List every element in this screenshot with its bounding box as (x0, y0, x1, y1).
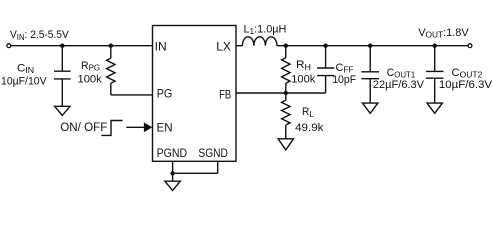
svg-text:CFF​: CFF​ (336, 62, 354, 75)
ground below RL (278, 139, 293, 150)
svg-text:100k: 100k (78, 74, 103, 86)
svg-text:10µF/6.3V: 10µF/6.3V (439, 79, 493, 91)
output terminal VOUT (468, 44, 472, 48)
capacitor COUT2 (426, 46, 444, 103)
wire FB pin to RH/RL node (236, 92, 286, 94)
svg-text:SGND: SGND (198, 147, 227, 160)
ground below COUT1 (363, 103, 378, 113)
svg-text:CIN​: CIN​ (17, 62, 34, 75)
svg-text:PGND: PGND (157, 147, 188, 160)
node junction at COUT2 (433, 44, 437, 48)
node junction at RPG (109, 44, 113, 48)
ground below IC (165, 181, 180, 190)
svg-text:L1​:1.0µH: L1​:1.0µH (244, 23, 287, 36)
ground below CIN (55, 106, 70, 115)
wire RPG to PG pin (111, 94, 153, 96)
svg-text:100k: 100k (291, 73, 316, 85)
svg-text:10pF: 10pF (332, 74, 356, 86)
capacitor CIN (54, 46, 71, 107)
svg-text:IN: IN (155, 40, 167, 54)
inductor L1 (242, 37, 277, 46)
wire LX pin to inductor (236, 45, 242, 47)
svg-text:EN: EN (157, 121, 173, 134)
node junction at CIN (60, 44, 64, 48)
wire PGND to ground (172, 161, 174, 173)
svg-text:COUT2​: COUT2​ (452, 67, 483, 80)
svg-text:FB: FB (219, 88, 231, 101)
svg-text:PG: PG (157, 88, 173, 101)
svg-text:49.9k: 49.9k (295, 122, 324, 134)
node junction FB (284, 91, 288, 95)
wire SGND to ground (173, 161, 218, 173)
svg-text:RH​: RH​ (296, 59, 311, 72)
ground below COUT2 (427, 103, 442, 113)
wire inductor to VOUT terminal (277, 45, 468, 47)
svg-text:VOUT​:1.8V: VOUT​:1.8V (418, 27, 469, 40)
resistor RL (282, 93, 290, 139)
wire VIN rail to IN pin (11, 45, 153, 47)
capacitor COUT1 (361, 46, 379, 103)
svg-text:10µF/10V: 10µF/10V (1, 75, 47, 87)
capacitor CFF (317, 46, 334, 93)
node junction at RH (284, 44, 288, 48)
EN logic step symbol (101, 121, 122, 136)
svg-text:22µF/6.3V: 22µF/6.3V (373, 79, 425, 91)
svg-text:LX: LX (216, 39, 231, 53)
node junction at COUT1 (368, 44, 372, 48)
EN arrow (126, 122, 152, 132)
resistor RH (282, 46, 290, 93)
IC U1 regulator body (153, 26, 237, 162)
wire FB node to CFF bottom (286, 92, 326, 94)
node junction at CFF (323, 44, 327, 48)
resistor RPG (107, 46, 115, 95)
input terminal VIN (7, 44, 11, 48)
svg-text:ON/ OFF: ON/ OFF (60, 120, 107, 134)
wire node to ground symbol (172, 173, 174, 181)
node junction PGND/SGND (170, 171, 174, 175)
